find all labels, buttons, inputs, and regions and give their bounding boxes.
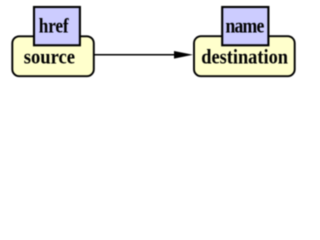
node destination — [194, 36, 295, 76]
svg-text:source: source — [24, 45, 75, 68]
label box href — [34, 7, 80, 45]
wire edge source->destination — [94, 54, 180, 56]
svg-text:destination: destination — [201, 45, 288, 68]
arrowhead — [174, 51, 193, 59]
svg-text:name: name — [225, 15, 264, 38]
label box name — [222, 7, 268, 45]
svg-text:href: href — [39, 15, 69, 38]
node source — [12, 36, 94, 76]
